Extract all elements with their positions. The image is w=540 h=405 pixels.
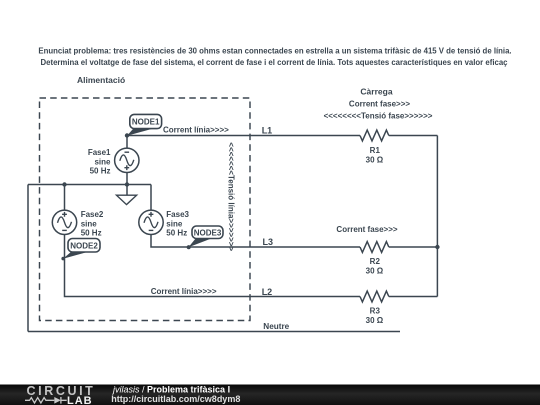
wire Neutre line [28, 331, 400, 333]
node flag NODE1 [127, 114, 162, 135]
voltage source Fase3 (sine, 50 Hz) [139, 210, 190, 238]
svg-text:Fase1: Fase1 [88, 148, 111, 157]
svg-text:Alimentació: Alimentació [77, 75, 125, 85]
svg-text:NODE3: NODE3 [194, 229, 222, 238]
wire right vertical bus [436, 136, 438, 297]
resistor R1 [360, 130, 389, 164]
svg-text:50 Hz: 50 Hz [81, 229, 102, 238]
svg-text:Neutre: Neutre [263, 322, 289, 331]
footer bar [0, 385, 540, 405]
svg-text:Fase2: Fase2 [81, 210, 104, 219]
svg-text:LAB: LAB [67, 395, 93, 405]
svg-text:30 Ω: 30 Ω [366, 155, 384, 164]
svg-text:R1: R1 [370, 146, 381, 155]
svg-text:jvilasis / Problema trifàsica: jvilasis / Problema trifàsica I [112, 384, 230, 394]
svg-text:Corrent fase>>>: Corrent fase>>> [349, 100, 410, 109]
svg-text:sine: sine [81, 219, 98, 228]
wire Fase1 top lead [126, 136, 128, 149]
wire L1 from NODE1 junction to resistor R1 [127, 135, 360, 137]
junction dot Fase2 top / neutral [62, 182, 66, 186]
node flag NODE3 [187, 226, 223, 249]
voltage source Fase1 (sine, 50 Hz) [88, 148, 139, 176]
svg-text:R2: R2 [370, 257, 381, 266]
svg-text:sine: sine [94, 157, 111, 166]
ground symbol [117, 185, 137, 205]
svg-text:Càrrega: Càrrega [360, 86, 392, 96]
wire L3 from Fase3 bottom to resistor R2 [151, 235, 360, 247]
svg-text:http://circuitlab.com/cw8dym8: http://circuitlab.com/cw8dym8 [111, 394, 240, 404]
svg-text:sine: sine [166, 219, 183, 228]
wire Fase1 bottom lead [126, 172, 128, 184]
junction dot NODE1 anchor [125, 133, 129, 137]
svg-text:L2: L2 [262, 287, 273, 297]
junction dot L3 at right bus [435, 245, 439, 249]
svg-text:<<<<<<<Tensió línia>>>>>>>: <<<<<<<Tensió línia>>>>>>> [227, 142, 236, 251]
junction dot Fase1 bottom / neutral [125, 182, 129, 186]
svg-text:Fase3: Fase3 [166, 210, 189, 219]
problem statement text [38, 47, 511, 67]
wire L2 from Fase2 bottom to resistor R3 [65, 235, 361, 297]
svg-text:30 Ω: 30 Ω [366, 316, 384, 325]
CircuitLab logo resistor-diode squiggle [25, 397, 67, 404]
svg-text:L1: L1 [262, 126, 273, 136]
wire Fase3 riser from neutral [150, 185, 152, 211]
svg-text:Corrent línia>>>>: Corrent línia>>>> [151, 287, 217, 296]
voltage source Fase2 (sine, 50 Hz) [52, 210, 104, 238]
wire from R3 to right bus [389, 296, 438, 298]
svg-text:50 Hz: 50 Hz [90, 167, 111, 176]
wire from R1 to right bus [389, 135, 438, 137]
resistor R3 [360, 291, 389, 325]
svg-text:NODE1: NODE1 [132, 118, 160, 127]
resistor R2 [360, 242, 389, 276]
svg-text:Determina el voltatge de fase: Determina el voltatge de fase del sistem… [41, 58, 509, 67]
svg-text:<<<<<<<<Tensió fase>>>>>>: <<<<<<<<Tensió fase>>>>>> [324, 112, 433, 121]
node flag NODE2 [61, 239, 100, 261]
svg-text:30 Ω: 30 Ω [366, 267, 384, 276]
svg-text:50 Hz: 50 Hz [166, 229, 187, 238]
svg-text:L3: L3 [263, 237, 274, 247]
svg-text:Corrent línia>>>>: Corrent línia>>>> [163, 126, 229, 135]
svg-text:Enunciat problema: tres resist: Enunciat problema: tres resistències de … [38, 47, 511, 56]
svg-text:R3: R3 [370, 307, 381, 316]
wire Fase2 top lead [64, 185, 66, 211]
wire from R2 to right bus [389, 246, 438, 248]
wire neutral horizontal inside source box [28, 184, 151, 186]
svg-text:NODE2: NODE2 [70, 242, 98, 251]
wire left neutral drop [27, 185, 29, 332]
svg-text:Corrent fase>>>: Corrent fase>>> [336, 225, 397, 234]
dashed alimentation boundary box [40, 98, 251, 321]
